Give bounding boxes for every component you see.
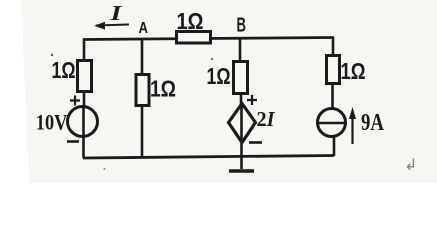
minus sign of 10V source	[67, 140, 79, 143]
wire right R bottom to source	[331, 83, 334, 108]
wire A vertical to middle R	[141, 39, 144, 76]
resistor R top 1ohm horizontal	[177, 32, 211, 44]
current source I1 circle 9A	[318, 109, 346, 137]
scan speck	[103, 168, 105, 170]
svg-text:1Ω: 1Ω	[52, 57, 76, 83]
wire through diamond	[240, 104, 243, 157]
svg-text:1Ω: 1Ω	[207, 63, 231, 89]
minus sign of dependent source	[249, 141, 262, 144]
wire left vertical (node to R top)	[83, 39, 86, 63]
plus sign of 10V source	[70, 96, 80, 106]
wire middle R bottom	[141, 105, 144, 158]
svg-text:10V: 10V	[36, 110, 68, 135]
scan speck	[51, 54, 53, 56]
arrow 9A up	[351, 114, 353, 144]
resistor R left 1ohm	[78, 61, 92, 92]
wire through source	[82, 106, 85, 158]
scanned page background	[0, 0, 437, 183]
bar through current source	[317, 122, 346, 125]
wire top horizontal from left corner to right corner	[83, 38, 334, 40]
wire bottom horizontal	[83, 156, 334, 159]
wire B vertical to R	[239, 38, 242, 63]
svg-text:1Ω: 1Ω	[341, 58, 366, 84]
wire B R bottom to diamond	[240, 93, 243, 106]
ground	[240, 156, 243, 169]
wire left R bottom to source	[83, 91, 86, 107]
svg-text:A: A	[139, 20, 149, 37]
svg-text:9A: 9A	[361, 110, 385, 136]
svg-text:I: I	[109, 1, 122, 25]
svg-text:1Ω: 1Ω	[177, 8, 204, 34]
resistor R B-branch 1ohm	[234, 62, 248, 94]
dependent source diamond 2I	[229, 104, 256, 143]
svg-text:↲: ↲	[404, 157, 417, 174]
wire right vertical to R	[332, 37, 335, 57]
wire source bottom to corner	[333, 137, 336, 156]
voltage source U1 circle	[68, 107, 98, 137]
scan speck	[211, 58, 213, 60]
resistor R right 1ohm	[327, 56, 340, 84]
svg-text:2I: 2I	[257, 107, 276, 131]
current arrow I	[96, 25, 129, 26]
resistor R middle 1ohm	[136, 75, 149, 106]
svg-text:1Ω: 1Ω	[150, 76, 176, 102]
svg-text:B: B	[237, 15, 247, 37]
plus sign of dependent source	[247, 95, 257, 105]
